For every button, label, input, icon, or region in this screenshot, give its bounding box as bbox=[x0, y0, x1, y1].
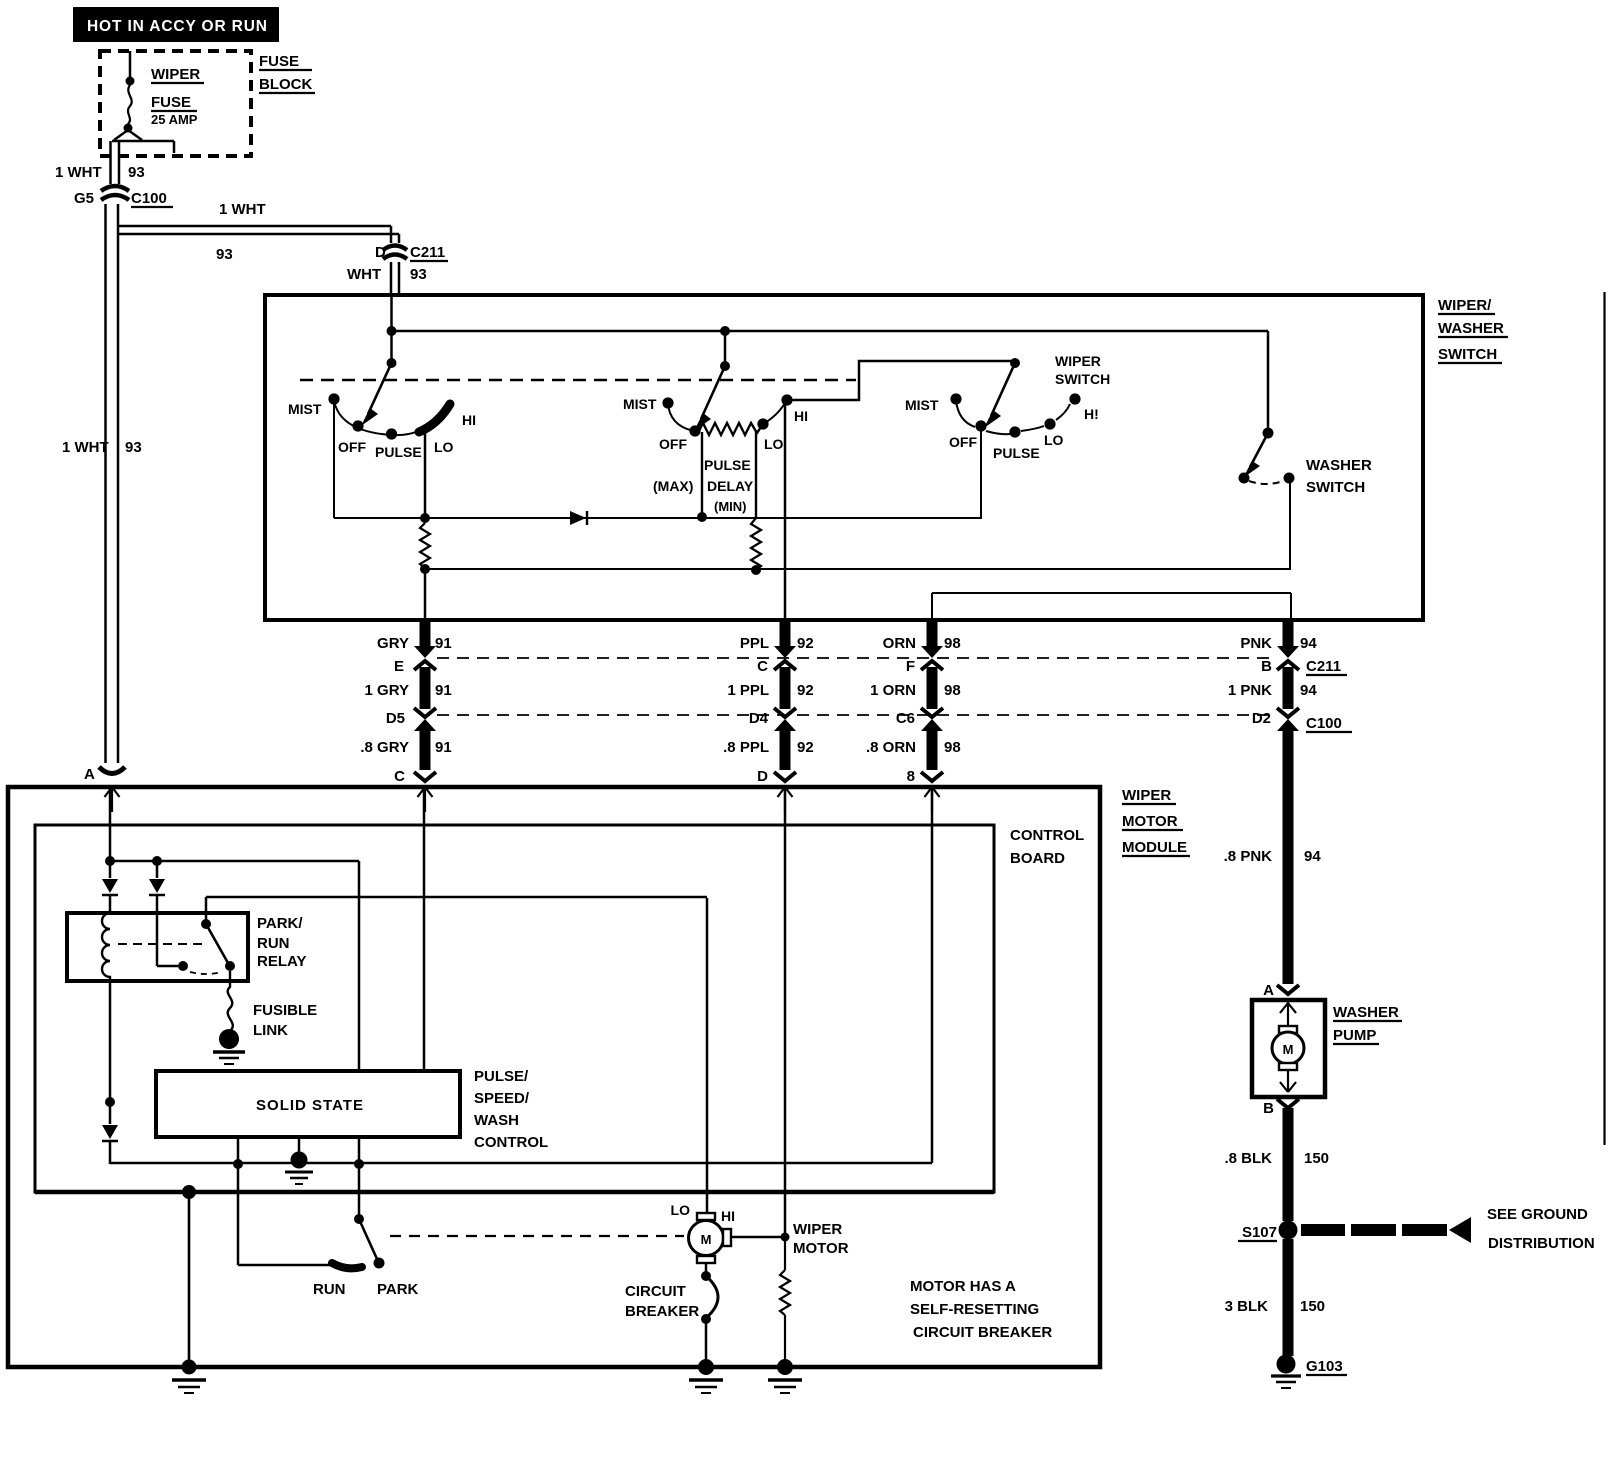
svg-text:LO: LO bbox=[671, 1202, 691, 1218]
svg-text:PPL: PPL bbox=[740, 635, 769, 652]
svg-text:(MIN): (MIN) bbox=[714, 499, 747, 514]
svg-text:WASHER: WASHER bbox=[1306, 457, 1372, 474]
svg-text:98: 98 bbox=[944, 739, 961, 756]
svg-text:93: 93 bbox=[216, 246, 233, 263]
svg-text:93: 93 bbox=[128, 164, 145, 181]
svg-text:MIST: MIST bbox=[288, 401, 322, 417]
svg-text:PARK/: PARK/ bbox=[257, 915, 303, 932]
svg-text:C211: C211 bbox=[1306, 658, 1341, 675]
svg-text:CONTROL: CONTROL bbox=[1010, 827, 1084, 844]
svg-text:SWITCH: SWITCH bbox=[1438, 346, 1497, 363]
svg-text:WIPER/: WIPER/ bbox=[1438, 297, 1492, 314]
svg-text:G5: G5 bbox=[74, 190, 94, 207]
svg-text:(MAX): (MAX) bbox=[653, 478, 693, 494]
svg-text:PUMP: PUMP bbox=[1333, 1027, 1376, 1044]
svg-text:1 WHT: 1 WHT bbox=[55, 164, 102, 181]
svg-text:1 WHT: 1 WHT bbox=[219, 201, 266, 218]
svg-text:93: 93 bbox=[410, 266, 427, 283]
svg-text:C6: C6 bbox=[896, 710, 915, 727]
svg-text:MIST: MIST bbox=[905, 397, 939, 413]
svg-text:25 AMP: 25 AMP bbox=[151, 112, 198, 127]
svg-text:3 BLK: 3 BLK bbox=[1225, 1298, 1269, 1315]
svg-text:RUN: RUN bbox=[313, 1281, 346, 1298]
svg-text:92: 92 bbox=[797, 739, 814, 756]
svg-text:PARK: PARK bbox=[377, 1281, 419, 1298]
svg-text:LO: LO bbox=[434, 439, 454, 455]
svg-text:ORN: ORN bbox=[883, 635, 916, 652]
svg-text:.8 GRY: .8 GRY bbox=[360, 739, 409, 756]
svg-text:C100: C100 bbox=[131, 190, 167, 207]
svg-text:LO: LO bbox=[764, 436, 784, 452]
svg-text:.8 ORN: .8 ORN bbox=[866, 739, 916, 756]
svg-text:M: M bbox=[701, 1232, 712, 1247]
svg-text:94: 94 bbox=[1300, 635, 1317, 652]
svg-text:BOARD: BOARD bbox=[1010, 850, 1065, 867]
svg-text:91: 91 bbox=[435, 682, 452, 699]
svg-text:150: 150 bbox=[1300, 1298, 1325, 1315]
svg-text:CIRCUIT BREAKER: CIRCUIT BREAKER bbox=[913, 1324, 1052, 1341]
svg-text:C: C bbox=[757, 658, 768, 675]
svg-text:1 PNK: 1 PNK bbox=[1228, 682, 1272, 699]
svg-text:SWITCH: SWITCH bbox=[1306, 479, 1365, 496]
svg-text:.8 PNK: .8 PNK bbox=[1224, 848, 1273, 865]
svg-text:93: 93 bbox=[125, 439, 142, 456]
svg-text:1 WHT: 1 WHT bbox=[62, 439, 109, 456]
svg-text:C: C bbox=[394, 768, 405, 785]
svg-text:OFF: OFF bbox=[338, 439, 366, 455]
svg-text:PULSE/: PULSE/ bbox=[474, 1068, 529, 1085]
svg-text:F: F bbox=[906, 658, 915, 675]
svg-text:BREAKER: BREAKER bbox=[625, 1303, 699, 1320]
svg-text:D5: D5 bbox=[386, 710, 405, 727]
svg-text:A: A bbox=[84, 766, 95, 783]
svg-text:SELF-RESETTING: SELF-RESETTING bbox=[910, 1301, 1039, 1318]
svg-text:B: B bbox=[1261, 658, 1272, 675]
svg-text:DELAY: DELAY bbox=[707, 478, 754, 494]
svg-text:G103: G103 bbox=[1306, 1358, 1343, 1375]
svg-text:RELAY: RELAY bbox=[257, 953, 306, 970]
svg-text:HI: HI bbox=[721, 1208, 735, 1224]
svg-text:MOTOR HAS A: MOTOR HAS A bbox=[910, 1278, 1016, 1295]
svg-text:SWITCH: SWITCH bbox=[1055, 371, 1110, 387]
svg-text:WIPER: WIPER bbox=[151, 66, 200, 83]
svg-text:SEE GROUND: SEE GROUND bbox=[1487, 1206, 1588, 1223]
svg-text:WIPER: WIPER bbox=[1055, 353, 1101, 369]
svg-text:WASHER: WASHER bbox=[1438, 320, 1504, 337]
svg-text:WIPER: WIPER bbox=[793, 1221, 842, 1238]
svg-text:WIPER: WIPER bbox=[1122, 787, 1171, 804]
svg-text:D: D bbox=[757, 768, 768, 785]
svg-text:.8 PPL: .8 PPL bbox=[723, 739, 769, 756]
svg-text:DISTRIBUTION: DISTRIBUTION bbox=[1488, 1235, 1595, 1252]
svg-text:WHT: WHT bbox=[347, 266, 381, 283]
svg-text:HI: HI bbox=[462, 412, 476, 428]
svg-text:PULSE: PULSE bbox=[993, 445, 1040, 461]
svg-text:D2: D2 bbox=[1252, 710, 1271, 727]
svg-text:91: 91 bbox=[435, 739, 452, 756]
svg-text:D: D bbox=[375, 244, 386, 261]
svg-text:WASHER: WASHER bbox=[1333, 1004, 1399, 1021]
svg-text:OFF: OFF bbox=[659, 436, 687, 452]
svg-text:98: 98 bbox=[944, 682, 961, 699]
svg-text:C100: C100 bbox=[1306, 715, 1342, 732]
svg-text:92: 92 bbox=[797, 635, 814, 652]
svg-text:LINK: LINK bbox=[253, 1022, 288, 1039]
svg-text:FUSE: FUSE bbox=[151, 94, 191, 111]
svg-text:LO: LO bbox=[1044, 432, 1064, 448]
svg-text:94: 94 bbox=[1300, 682, 1317, 699]
svg-text:94: 94 bbox=[1304, 848, 1321, 865]
svg-text:MOTOR: MOTOR bbox=[1122, 813, 1178, 830]
svg-text:PNK: PNK bbox=[1240, 635, 1272, 652]
svg-text:E: E bbox=[394, 658, 404, 675]
svg-text:1 GRY: 1 GRY bbox=[365, 682, 409, 699]
svg-text:MODULE: MODULE bbox=[1122, 839, 1187, 856]
svg-text:BLOCK: BLOCK bbox=[259, 76, 312, 93]
svg-text:8: 8 bbox=[907, 768, 915, 785]
svg-text:CIRCUIT: CIRCUIT bbox=[625, 1283, 686, 1300]
svg-text:C211: C211 bbox=[410, 244, 445, 261]
svg-text:.8 BLK: .8 BLK bbox=[1224, 1150, 1272, 1167]
svg-text:HI: HI bbox=[794, 408, 808, 424]
svg-text:PULSE: PULSE bbox=[375, 444, 422, 460]
svg-text:1 ORN: 1 ORN bbox=[870, 682, 916, 699]
svg-text:SPEED/: SPEED/ bbox=[474, 1090, 530, 1107]
svg-text:OFF: OFF bbox=[949, 434, 977, 450]
svg-text:RUN: RUN bbox=[257, 935, 290, 952]
svg-text:150: 150 bbox=[1304, 1150, 1329, 1167]
svg-text:91: 91 bbox=[435, 635, 452, 652]
svg-text:MIST: MIST bbox=[623, 396, 657, 412]
svg-text:CONTROL: CONTROL bbox=[474, 1134, 548, 1151]
svg-text:A: A bbox=[1263, 982, 1274, 999]
svg-text:PULSE: PULSE bbox=[704, 457, 751, 473]
svg-text:FUSIBLE: FUSIBLE bbox=[253, 1002, 317, 1019]
svg-text:GRY: GRY bbox=[377, 635, 409, 652]
svg-text:B: B bbox=[1263, 1100, 1274, 1117]
svg-text:S107: S107 bbox=[1242, 1224, 1277, 1241]
svg-text:H!: H! bbox=[1084, 406, 1099, 422]
svg-text:M: M bbox=[1283, 1042, 1294, 1057]
svg-text:WASH: WASH bbox=[474, 1112, 519, 1129]
svg-text:D4: D4 bbox=[749, 710, 769, 727]
svg-text:98: 98 bbox=[944, 635, 961, 652]
svg-text:FUSE: FUSE bbox=[259, 53, 299, 70]
svg-text:HOT IN ACCY OR RUN: HOT IN ACCY OR RUN bbox=[87, 18, 267, 35]
svg-text:SOLID STATE: SOLID STATE bbox=[256, 1097, 364, 1114]
svg-text:MOTOR: MOTOR bbox=[793, 1240, 849, 1257]
svg-text:92: 92 bbox=[797, 682, 814, 699]
svg-text:1 PPL: 1 PPL bbox=[727, 682, 769, 699]
